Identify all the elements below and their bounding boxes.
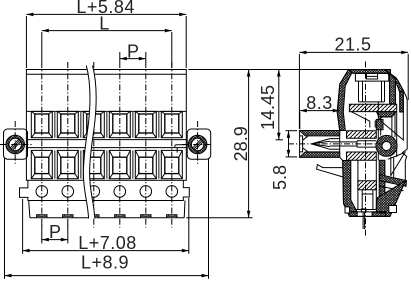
svg-text:P: P <box>127 42 140 62</box>
right-side screw boss ring <box>376 135 397 156</box>
boss shoulder hatch block <box>376 120 383 130</box>
lower collar wall continuation hatch <box>347 152 377 160</box>
right wall channel lines <box>396 79 404 140</box>
pin exit notch <box>389 206 397 213</box>
screw head outline <box>355 73 388 81</box>
dimension P <box>42 239 68 241</box>
terminal window pole 3 <box>83 111 104 137</box>
top reference extension line <box>188 69 348 71</box>
flange hole pole 6 <box>166 186 178 198</box>
terminal window pole 6 <box>161 150 182 178</box>
cavity inner hatch band <box>358 181 376 190</box>
dimension P <box>120 58 146 60</box>
dimension L+7.08 <box>23 250 189 252</box>
window separator shading lines <box>55 111 159 178</box>
svg-text:21.5: 21.5 <box>334 35 371 55</box>
front view: middle band upper line <box>26 139 186 141</box>
terminal window pole 5 <box>135 111 156 137</box>
flange hole pole 1 <box>36 186 48 198</box>
side view: left wall hatch <box>337 70 351 131</box>
broken-view wipe <box>83 66 96 219</box>
side view vertical center line <box>365 62 367 237</box>
solder tab pole 1 <box>37 215 47 218</box>
contact pin in collar <box>330 141 376 147</box>
side view: body outer profile <box>337 70 407 217</box>
slanted brace strip hatch <box>380 175 407 187</box>
upper collar wall continuation hatch <box>347 131 377 139</box>
terminal window pole 6 <box>161 111 182 137</box>
terminal window pole 1 <box>31 150 52 178</box>
left flange screw head <box>6 135 25 154</box>
left notch in bottom wall <box>345 207 350 213</box>
collar top wall hatch <box>300 131 340 136</box>
right flange screw head <box>188 135 207 154</box>
collar horizontal center line <box>288 143 381 145</box>
solder tab pole 3 <box>89 215 99 218</box>
chamber right wall hatch <box>390 73 396 104</box>
dimension 14.45 <box>278 70 280 140</box>
break line left <box>83 66 90 219</box>
dimension 8.3 <box>300 110 340 112</box>
outer right wall strip hatch <box>400 91 404 113</box>
collar bottom wall hatch <box>300 152 340 157</box>
chamber floor hatch band <box>349 104 396 111</box>
break line right <box>90 66 97 219</box>
svg-text:28.9: 28.9 <box>231 126 251 161</box>
boss upper collar hatch <box>376 112 396 117</box>
terminal window pole 5 <box>135 150 156 178</box>
latch hook <box>317 165 343 177</box>
screw flange center lines <box>0 121 211 165</box>
side view: top wall hatch band <box>349 70 391 74</box>
right panel screw flange <box>187 129 211 159</box>
bottom reference extension line <box>186 217 252 219</box>
dimension 5.8 <box>288 131 290 157</box>
lower contact cavity walls <box>356 160 377 209</box>
dimension 21.5 <box>299 51 408 53</box>
dimension L <box>42 30 172 32</box>
solder pin tail <box>363 212 365 229</box>
svg-text:14.45: 14.45 <box>258 85 278 130</box>
flange hole pole 3 <box>88 186 100 198</box>
cavity right wall strip hatch <box>379 160 385 213</box>
svg-text:5.8: 5.8 <box>270 165 290 190</box>
terminal window pole 2 <box>57 111 78 137</box>
front view: window section top line <box>26 110 186 112</box>
flange bottom strip with solder tabs <box>29 201 185 218</box>
contact spring jaws <box>312 139 340 150</box>
terminal window pole 2 <box>57 150 78 178</box>
solder pin base <box>361 209 366 212</box>
bottom wall hatch right part <box>372 212 385 217</box>
screw driver slot <box>367 73 378 79</box>
solder tab pole 2 <box>63 215 73 218</box>
contact holder inner walls <box>362 190 373 210</box>
plug collar outline <box>300 131 340 158</box>
coding key notch detail near right end <box>175 145 185 153</box>
solder tab pole 5 <box>141 215 151 218</box>
flange hole pole 5 <box>140 186 152 198</box>
dimension L+8.9 <box>5 275 209 277</box>
svg-text:8.3: 8.3 <box>306 93 333 113</box>
flange hole pole 4 <box>114 186 126 198</box>
brace lower boundary line <box>380 186 404 191</box>
mounting flange section outline <box>20 180 190 200</box>
lower right mass hatch <box>376 181 405 216</box>
screw chamber side walls <box>359 81 385 102</box>
dimension L+5.84 <box>26 13 186 15</box>
boss cylinder wall lines <box>378 102 396 161</box>
wedge diagonal lines <box>381 122 405 178</box>
solder tab pole 4 <box>115 215 125 218</box>
front view: terminal block body outline <box>26 70 186 181</box>
side view: top-right corner hatch <box>385 70 404 93</box>
solder tab pole 6 <box>167 215 177 218</box>
svg-text:L+7.08: L+7.08 <box>78 233 137 253</box>
pole center lines (dash-dot) <box>42 62 172 228</box>
collar front wall + funnel mouth <box>300 136 308 152</box>
left panel screw flange <box>4 129 28 159</box>
svg-text:L: L <box>99 14 110 34</box>
wire funnel <box>351 112 392 128</box>
bottom wall lines <box>350 212 391 217</box>
front view: top band line <box>26 73 186 75</box>
terminal window pole 3 <box>83 150 104 178</box>
svg-text:P: P <box>49 222 62 242</box>
flange hole pole 2 <box>62 186 74 198</box>
terminal window pole 1 <box>31 111 52 137</box>
svg-text:L+8.9: L+8.9 <box>81 252 129 272</box>
front view: middle band lower line <box>26 147 186 149</box>
lower-left wall hatch <box>343 161 358 217</box>
dimension 28.9 <box>248 70 250 218</box>
terminal window pole 4 <box>109 150 130 178</box>
terminal window pole 4 <box>109 111 130 137</box>
